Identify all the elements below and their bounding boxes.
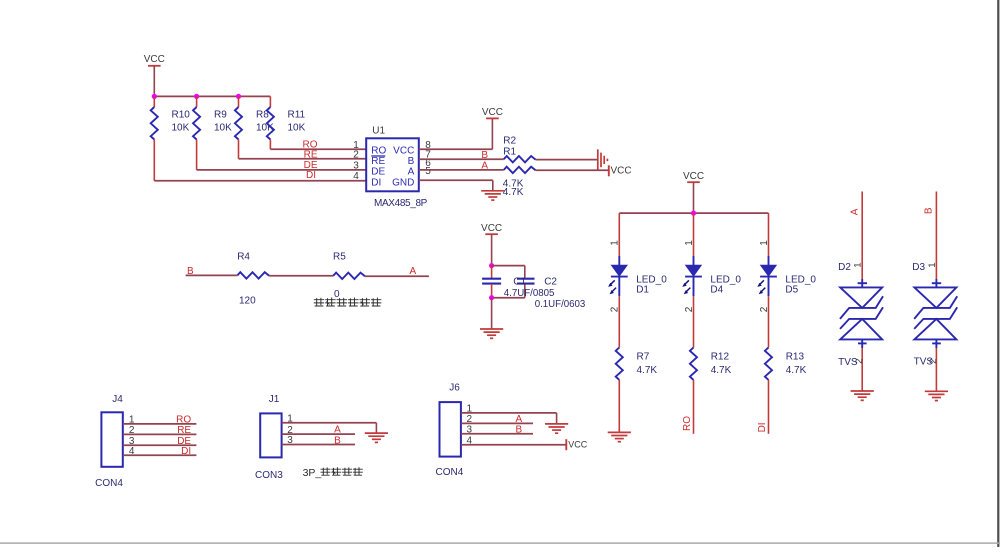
svg-text:A: A [515,414,522,425]
wire J1 pin 2 [282,433,355,435]
net label RE [304,149,318,160]
svg-text:R11: R11 [288,110,306,121]
diode LED D5 [757,213,777,347]
resistor R10 [151,96,158,180]
svg-text:3: 3 [353,160,359,171]
net label A at J6 [515,414,522,425]
wire VCC bus top [154,95,270,97]
svg-text:10K: 10K [288,123,306,134]
junction node dot 2 [194,94,199,99]
resistor R7 [616,347,623,432]
net label A at U1 [481,161,488,172]
net label RO [303,139,318,150]
svg-text:2: 2 [684,306,695,312]
svg-text:U1: U1 [372,125,385,136]
svg-text:A: A [334,425,341,436]
pin number J1 2 [287,425,293,436]
label R11 value 10K [288,110,306,134]
svg-text:R13: R13 [786,352,805,363]
label D1 LED_0 [636,275,667,296]
ground rotated on B line [598,149,608,170]
diode TVS D2 [840,192,883,392]
svg-text:2: 2 [353,149,359,160]
wire net DI to U1 pin4 [154,180,366,182]
power VCC above U1 [482,107,503,118]
svg-text:VCC: VCC [611,165,632,176]
svg-text:VCC: VCC [568,440,588,450]
ground at U1 pin5 [481,191,504,200]
svg-text:3: 3 [467,425,473,436]
net label B rotated [924,207,935,214]
label D3 designator [912,262,925,273]
label R8 value 10K [256,110,274,134]
wire J6 pin 4 to VCC [461,444,566,446]
svg-text:CON4: CON4 [95,478,123,489]
wire J6 pin 1 to ground [461,413,557,424]
ground below D2 [851,391,874,400]
ground below C1 [480,329,503,338]
label C1 value [504,288,555,299]
svg-text:1: 1 [759,240,770,246]
svg-text:D4: D4 [710,284,723,295]
net label RO at J4 [176,414,191,425]
svg-text:TVS: TVS [838,357,858,368]
label R10 value 10K [172,110,191,134]
svg-text:DE: DE [371,167,385,178]
svg-text:3P_: 3P_ [303,467,322,479]
svg-text:B: B [334,436,341,447]
screen right edge line [997,0,999,547]
junction node dot 3 [236,94,241,99]
svg-text:TVS: TVS [914,357,934,368]
net label DI at J4 [181,446,191,457]
label U1 part MAX485_8P [374,198,428,209]
label D2 designator [838,262,851,273]
resistor R1 [504,167,536,173]
junction node dot 1 [152,94,157,99]
pin number J4 4 [129,446,135,457]
svg-text:DI: DI [757,422,768,432]
svg-text:R12: R12 [711,352,730,363]
net label RE at J4 [177,425,191,436]
screen bottom edge line [0,542,1000,544]
resistor R9 [193,96,200,169]
wire U1 pin8 to VCC [419,119,493,150]
wire J4 pin 4 [123,454,197,456]
wire R4 to R5 [269,275,333,277]
label R13 value [786,352,807,376]
svg-text:1: 1 [287,414,293,425]
svg-text:VCC: VCC [393,146,414,157]
pin number 1 [353,140,359,151]
pin number 5 [425,166,431,177]
svg-text:1: 1 [853,263,864,268]
svg-text:B: B [481,150,488,161]
svg-text:C1: C1 [513,276,526,287]
label R4 value 120 [239,296,256,307]
junction node dot LED bus [691,211,696,216]
wire net RO to U1 pin1 [270,148,366,150]
svg-text:R10: R10 [172,110,191,121]
wire J4 pin 1 [123,423,197,425]
label J1 designator [269,394,280,405]
pin number J1 1 [287,414,293,425]
wire net A right [365,275,429,277]
label R9 value 10K [214,110,232,134]
label D2 value TVS [838,357,858,368]
label J4 designator [112,394,123,405]
svg-text:10K: 10K [214,123,232,134]
svg-text:VCC: VCC [482,107,503,118]
resistor R12 [690,347,697,433]
svg-text:2: 2 [759,306,770,312]
wire R2 to ground [536,159,598,161]
label R1 designator [503,146,516,157]
svg-text:B: B [924,207,935,214]
svg-text:4: 4 [129,446,135,457]
svg-text:DI: DI [306,170,316,181]
note 3P terminal [303,467,363,479]
resistor R11 [267,96,274,149]
svg-text:2: 2 [467,414,473,425]
svg-text:DI: DI [181,446,191,457]
wire J6 pin 2 [461,422,533,424]
svg-text:R5: R5 [333,252,346,263]
wire J4 pin 2 [123,433,197,435]
label R12 value [711,352,732,376]
net label DE at J4 [177,436,191,447]
wire J4 pin 3 [123,444,197,446]
svg-text:VCC: VCC [144,54,165,65]
pin number 8 [425,140,431,151]
wire R1 to VCC port [536,169,609,171]
svg-text:VCC: VCC [683,171,704,182]
svg-text:RO: RO [682,416,693,431]
net label DI [306,170,316,181]
svg-text:D2: D2 [838,262,851,273]
svg-text:4: 4 [467,435,473,446]
power VCC above C1 [481,223,502,266]
ground at J1 pin1 [365,433,388,442]
wire U1 pin7 B [419,158,504,160]
svg-text:4.7K: 4.7K [503,187,524,198]
net label B [187,266,194,277]
svg-text:5: 5 [425,166,431,177]
svg-text:CON3: CON3 [255,470,283,481]
svg-text:J6: J6 [449,383,460,394]
svg-text:2: 2 [287,425,293,436]
net label A at J1 [334,425,341,436]
pin number J1 3 [287,435,293,446]
label R2 designator [503,135,516,146]
label C1 designator [513,276,526,287]
wire U1 pin6 A [419,169,504,171]
svg-text:4.7UF/0805: 4.7UF/0805 [504,288,555,299]
label R5 designator [333,252,346,263]
svg-text:RE: RE [177,425,191,436]
wire LED supply bus [619,212,768,214]
pin number J6 4 [467,435,473,446]
svg-text:C2: C2 [544,276,557,287]
wire branch to C2 [492,266,525,279]
power VCC at J6 pin4 [566,439,588,450]
net label DE [304,160,318,171]
power VCC top-left [144,54,165,96]
label R5 value 0 [334,289,340,300]
svg-text:120: 120 [239,296,256,307]
pin number 4 [353,171,359,182]
svg-text:J1: J1 [269,394,280,405]
junction node dot bottom C1 [489,295,494,300]
svg-text:1: 1 [129,415,135,426]
net label DI rotated [757,422,768,432]
net label B at U1 [481,150,488,161]
pin number J6 3 [467,425,473,436]
svg-text:RO: RO [176,414,191,425]
svg-text:R9: R9 [214,110,227,121]
label R1 value 4.7K [503,187,524,198]
diode LED D4 [682,213,702,347]
svg-text:2: 2 [129,425,135,436]
junction node dot top C1 [489,263,494,268]
ground at J6 pin1 [545,424,568,433]
pin number J4 2 [129,425,135,436]
pin number J6 1 [467,404,473,415]
wire C1 to ground [491,298,493,329]
svg-text:3: 3 [287,435,293,446]
svg-text:DI: DI [371,177,381,188]
pin number 6 [425,158,431,169]
label C2 designator [544,276,557,287]
ground below R7 [608,432,631,441]
wire J6 pin 3 [461,433,533,435]
label U1 designator [372,125,385,136]
svg-text:RE: RE [371,156,385,167]
resistor R4 [237,272,269,278]
svg-text:D5: D5 [785,284,798,295]
svg-text:0: 0 [334,289,340,300]
connector J1 body [260,413,281,457]
svg-text:A: A [408,167,415,178]
svg-text:A: A [410,266,417,277]
pin number 3 [353,160,359,171]
svg-text:10K: 10K [172,123,190,134]
svg-text:GND: GND [392,177,414,188]
resistor R5 [333,273,365,279]
svg-text:1: 1 [467,404,473,415]
svg-text:B: B [515,424,522,435]
connector J6 body [440,402,461,457]
label J6 designator [449,383,460,394]
svg-text:R1: R1 [503,146,516,157]
svg-text:4.7K: 4.7K [637,365,658,376]
resistor R8 [235,96,242,158]
svg-text:R7: R7 [637,352,650,363]
svg-text:B: B [187,266,194,277]
label R7 value [637,352,658,376]
label D3 value TVS [914,357,934,368]
wire C2 to bottom node [492,284,525,298]
power VCC above LEDs [683,171,704,213]
wire J1 pin 3 [282,444,355,446]
capacitor C2 [517,279,535,284]
wire net RE to U1 pin2 [239,158,367,160]
ground below D3 [925,391,948,400]
svg-text:J4: J4 [112,394,123,405]
svg-text:4.7K: 4.7K [711,365,732,376]
op-amp U1 MAX485 body [366,138,419,191]
label J1 CON3 [255,470,283,481]
svg-text:D1: D1 [636,284,649,295]
net label B at J1 [334,436,341,447]
net label RO rotated [682,416,693,431]
svg-text:2: 2 [610,306,621,312]
label R2 value 4.7K [503,179,524,190]
net label A [410,266,417,277]
net label B at J6 [515,424,522,435]
wire J1 pin 1 to ground [282,423,377,433]
svg-text:1: 1 [927,263,938,268]
wire net B left [186,274,238,276]
svg-text:0.1UF/0603: 0.1UF/0603 [535,299,586,310]
svg-text:1: 1 [610,240,621,246]
label D4 LED_0 [710,275,741,296]
resistor R13 [765,347,772,433]
svg-text:RO: RO [371,146,386,157]
pin number 7 [425,149,431,160]
label C2 value [535,299,586,310]
svg-text:D3: D3 [912,262,925,273]
svg-text:4: 4 [353,171,359,182]
pin number J4 3 [129,436,135,447]
label J6 CON4 [436,467,464,478]
svg-text:R2: R2 [503,135,516,146]
pin number 2 [353,149,359,160]
svg-text:RE: RE [304,149,318,160]
svg-text:R4: R4 [237,252,250,263]
svg-text:A: A [850,208,861,215]
wire U1 pin5 to ground [419,180,493,191]
label D5 LED_0 [785,275,816,296]
wire net DE to U1 pin3 [197,169,367,171]
power VCC on A line [609,165,632,176]
label R4 designator [237,252,250,263]
resistor R2 [504,156,536,162]
svg-text:VCC: VCC [481,223,502,234]
label J4 CON4 [95,478,123,489]
capacitor C1 [482,266,501,298]
connector J4 body [101,412,122,467]
svg-text:MAX485_8P: MAX485_8P [374,198,428,209]
diode TVS D3 [914,192,957,392]
note do-not-solder [314,298,382,307]
svg-text:4.7K: 4.7K [786,365,807,376]
diode LED D1 [608,213,628,347]
svg-text:B: B [408,156,415,167]
svg-text:1: 1 [684,240,695,246]
net label A rotated [850,208,861,215]
svg-text:CON4: CON4 [436,467,464,478]
pin number J4 1 [129,415,135,426]
pin number J6 2 [467,414,473,425]
svg-text:A: A [481,161,488,172]
